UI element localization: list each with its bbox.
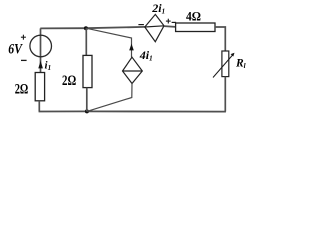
diamond chord 4i1 [123,70,143,72]
wire top horizontal [40,27,145,29]
wire source bottom to resistor [40,58,42,73]
variable resistor arrow RL [213,55,233,78]
minus dash right of plus [172,21,177,23]
minus sign left of 2i1 [138,24,144,26]
current arrow of 4i1 [129,44,134,51]
node dot bottom [85,109,89,113]
wire top-left vertical into source [40,28,42,57]
svg-text:2Ω: 2Ω [62,73,76,89]
dependent source 4i1 diamond [123,57,143,83]
resistor RL rect [222,51,229,77]
minus sign of source [21,59,27,61]
resistor 2ohm middle rect [83,55,92,87]
diamond chord 2i1 [145,26,164,27]
resistor 4ohm rect [176,23,215,32]
wire 2i1 to 4ohm resistor [164,25,176,28]
wire top dot to middle resistor [85,28,87,55]
plus sign right of 2i1 [166,19,171,24]
resistor 2ohm left rect [35,73,44,101]
current arrow i1 [38,61,43,69]
wire RL to bottom right corner [224,77,226,112]
svg-text:4Ω: 4Ω [186,9,201,24]
dependent source 2i1 diamond [145,14,164,41]
wire middle resistor to bottom dot [86,88,88,112]
node dot top [84,26,88,30]
plus sign of source [21,35,26,40]
wire 4ohm to right corner [215,27,225,51]
wire 4i1 bottom to bottom dot [87,84,132,112]
wire diagonal top dot to 4i1 source [86,28,132,57]
svg-text:6V: 6V [8,41,23,57]
wire left resistor to bottom [38,101,40,112]
svg-text:2Ω: 2Ω [15,81,29,97]
wire bottom horizontal [39,110,226,112]
voltage source V1 circle [30,35,52,57]
